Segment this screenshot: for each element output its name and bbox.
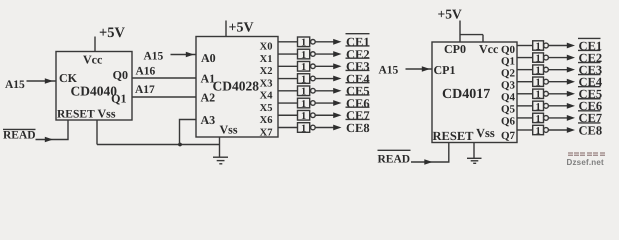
svg-text:Q0: Q0	[501, 44, 516, 56]
net label CE5 (right bank, active-low)	[578, 87, 602, 101]
arrowhead to CE6	[333, 100, 341, 106]
svg-text:Vss: Vss	[220, 123, 238, 137]
wire inverter G13 output	[549, 93, 567, 95]
svg-text:1: 1	[301, 50, 306, 61]
net label CE6 (active-low)	[346, 95, 370, 110]
svg-text:A0: A0	[201, 51, 216, 65]
wire CD4028 X1 to inverter	[278, 53, 298, 55]
svg-text:Q2: Q2	[501, 67, 516, 79]
net label CE5 (active-low)	[346, 83, 370, 98]
inverter G11 (box "1" with bubble)	[533, 65, 549, 77]
power +5V supply to U2 Vcc	[226, 21, 254, 37]
ground symbol (U3 Vss)	[467, 158, 482, 163]
wire inverter G14 output	[549, 105, 567, 107]
arrowhead to CE3	[333, 63, 341, 69]
svg-text:Q4: Q4	[501, 91, 516, 103]
wire inverter G16 output	[549, 129, 567, 131]
svg-text:X6: X6	[260, 115, 273, 126]
arrowhead on CP1 wire	[422, 66, 430, 72]
net label CE8 (right bank, active-low)	[578, 123, 602, 137]
svg-text:RESET: RESET	[57, 109, 95, 121]
svg-text:1: 1	[535, 66, 540, 77]
net label CE7 (active-low)	[346, 107, 370, 122]
svg-text:1: 1	[301, 62, 306, 73]
svg-text:1: 1	[535, 41, 540, 52]
svg-text:X0: X0	[260, 42, 273, 53]
inverter G4 (box "1" with bubble)	[298, 74, 316, 86]
wire READ to U3 RESET	[411, 143, 449, 163]
svg-text:CE8: CE8	[346, 121, 370, 135]
net label CE1 (active-low)	[346, 34, 370, 49]
wire inverter G6 output	[315, 102, 334, 104]
wire U1 Vss down	[96, 120, 98, 145]
arrowhead to CE4	[333, 76, 341, 82]
arrowhead to CE1 right bank	[567, 43, 575, 49]
wire A15 to A0	[171, 54, 197, 56]
wire inverter G10 output	[549, 57, 567, 59]
inverter G7 (box "1" with bubble)	[298, 110, 316, 122]
svg-text:Q0: Q0	[113, 68, 128, 82]
net label CE2 (right bank, active-low)	[578, 50, 602, 64]
wire CD4017 Q3 to inverter	[517, 81, 533, 83]
svg-text:Q7: Q7	[501, 130, 516, 142]
arrowhead to CE6 right bank	[567, 103, 575, 109]
wire CD4017 Q4 to inverter	[517, 93, 533, 95]
inverter G10 (box "1" with bubble)	[533, 53, 549, 65]
wire CD4017 Q5 to inverter	[517, 105, 533, 107]
wire CD4017 Q6 to inverter	[517, 117, 533, 119]
net label CE6 (right bank, active-low)	[578, 99, 602, 113]
power +5V supply to U3 (CP0 and Vcc)	[438, 7, 484, 43]
svg-text:X5: X5	[260, 103, 273, 114]
wire inverter G8 output	[315, 127, 334, 129]
wire A3 riser	[180, 120, 197, 145]
svg-text:X4: X4	[260, 91, 274, 102]
arrowhead to CE5 right bank	[567, 91, 575, 97]
net label CE2 (active-low)	[346, 46, 370, 61]
svg-text:X7: X7	[260, 127, 273, 138]
wire inverter G9 output	[549, 45, 567, 47]
wire CD4028 X2 to inverter	[278, 65, 298, 67]
inverter G5 (box "1" with bubble)	[298, 86, 316, 98]
svg-text:A15: A15	[144, 51, 164, 63]
IC U1 CD4040 counter box	[56, 52, 132, 121]
svg-text:1: 1	[301, 87, 306, 98]
wire inverter G11 output	[549, 69, 567, 71]
wire CD4028 X3 to inverter	[278, 78, 298, 80]
svg-text:A17: A17	[135, 84, 155, 96]
wire A15 to CK	[27, 80, 57, 82]
arrowhead to CE7 right bank	[567, 115, 575, 121]
wire Q1 to A2 (net A17)	[132, 96, 196, 98]
net label READ (active-low, right)	[378, 150, 411, 165]
power +5V supply to U1 Vcc	[95, 25, 126, 52]
ground symbol (U2 Vss)	[213, 157, 228, 164]
IC U2 CD4028 decoder box	[196, 37, 278, 138]
svg-text:Q6: Q6	[501, 116, 516, 128]
inverter G8 (box "1" with bubble)	[298, 123, 316, 135]
svg-text:1: 1	[301, 123, 306, 134]
net label CE3 (right bank, active-low)	[578, 63, 602, 77]
svg-text:X2: X2	[260, 66, 273, 77]
svg-text:Q1: Q1	[501, 55, 515, 67]
arrowhead on right READ wire	[424, 159, 432, 165]
arrowhead to CE5	[333, 88, 341, 94]
inverter G14 (box "1" with bubble)	[533, 101, 549, 113]
svg-text:1: 1	[535, 102, 540, 113]
net label CE1 (right bank, active-low)	[578, 38, 602, 52]
net label READ (active-low)	[3, 129, 36, 141]
arrowhead to CE1	[333, 39, 341, 45]
svg-text:+5V: +5V	[99, 25, 126, 41]
svg-text:CP1: CP1	[434, 63, 456, 77]
arrowhead to CE7	[333, 112, 341, 118]
wire inverter G4 output	[315, 78, 334, 80]
wire U3 Vss down to ground	[473, 143, 475, 159]
svg-text:1: 1	[535, 90, 540, 101]
wire CD4017 Q7 to inverter	[517, 129, 533, 131]
arrowhead to CE8 right bank	[567, 127, 575, 133]
net label CE4 (active-low)	[346, 70, 371, 85]
svg-text:1: 1	[535, 114, 540, 125]
svg-text:READ: READ	[378, 154, 411, 166]
arrowhead to CE4 right bank	[567, 79, 575, 85]
wire inverter G12 output	[549, 81, 567, 83]
svg-text:Vss: Vss	[476, 126, 495, 140]
svg-text:1: 1	[301, 38, 306, 49]
IC U3 CD4017 counter box	[432, 42, 517, 143]
svg-text:1: 1	[535, 78, 540, 89]
wire inverter G3 output	[315, 65, 334, 67]
svg-text:Vcc: Vcc	[83, 53, 103, 67]
svg-text:READ: READ	[3, 130, 36, 142]
inverter G6 (box "1" with bubble)	[298, 98, 316, 110]
svg-text:Q3: Q3	[501, 79, 516, 91]
wire inverter G7 output	[315, 114, 334, 116]
svg-text:1: 1	[301, 99, 306, 110]
svg-text:A16: A16	[136, 66, 156, 78]
wire inverter G2 output	[315, 53, 334, 55]
inverter G15 (box "1" with bubble)	[533, 113, 549, 125]
arrowhead on A0 wire	[186, 52, 194, 58]
wire U2 Vss down to ground	[219, 137, 221, 157]
inverter G2 (box "1" with bubble)	[298, 49, 316, 61]
wire CD4028 X5 to inverter	[278, 102, 298, 104]
net label CE3 (active-low)	[346, 58, 370, 73]
svg-text:X1: X1	[260, 54, 273, 65]
arrowhead to CE2 right bank	[567, 55, 575, 61]
wire CD4028 X4 to inverter	[278, 90, 298, 92]
svg-text:X3: X3	[260, 78, 273, 89]
arrowhead on CK wire	[45, 78, 53, 84]
svg-text:CP0: CP0	[444, 42, 466, 56]
wire CD4028 X0 to inverter	[278, 41, 298, 43]
inverter G1 (box "1" with bubble)	[298, 37, 316, 49]
net label CE4 (right bank, active-low)	[578, 75, 603, 89]
svg-text:CD4028: CD4028	[213, 79, 260, 94]
inverter G3 (box "1" with bubble)	[298, 61, 316, 73]
wire READ to RESET corner	[36, 120, 69, 140]
wire inverter G1 output	[315, 41, 334, 43]
wire CD4017 Q2 to inverter	[517, 69, 533, 71]
wire inverter G5 output	[315, 90, 334, 92]
svg-text:A15: A15	[5, 79, 25, 91]
svg-text:Vss: Vss	[98, 107, 116, 121]
inverter G9 (box "1" with bubble)	[533, 41, 549, 53]
svg-text:+5V: +5V	[438, 7, 462, 22]
svg-text:1: 1	[535, 53, 540, 64]
arrowhead to CE8	[333, 125, 341, 131]
wire ground rail y144.5	[97, 144, 220, 146]
svg-text:A3: A3	[201, 113, 216, 127]
wire CD4028 X6 to inverter	[278, 114, 298, 116]
svg-text:1: 1	[301, 74, 306, 85]
net label CE7 (right bank, active-low)	[578, 111, 602, 125]
svg-text:A15: A15	[379, 65, 399, 77]
wire Q0 to A1 (net A16)	[132, 77, 196, 79]
svg-text:CD4017: CD4017	[442, 87, 490, 102]
svg-text:CE8: CE8	[579, 123, 603, 137]
inverter G16 (box "1" with bubble)	[533, 125, 549, 137]
svg-text:1: 1	[301, 111, 306, 122]
inverter G12 (box "1" with bubble)	[533, 77, 549, 89]
svg-text:1: 1	[535, 126, 540, 137]
svg-text:A2: A2	[201, 91, 216, 105]
arrowhead to CE3 right bank	[567, 67, 575, 73]
wire CD4017 Q0 to inverter	[517, 45, 533, 47]
svg-text:Q5: Q5	[501, 104, 516, 116]
net label CE8 (active-low)	[346, 119, 370, 134]
wire inverter G15 output	[549, 117, 567, 119]
svg-text:Q1: Q1	[111, 92, 126, 106]
svg-text:RESET: RESET	[433, 129, 475, 143]
svg-text:Vcc: Vcc	[479, 42, 499, 56]
wire CD4028 X7 to inverter	[278, 127, 298, 129]
arrowhead to CE2	[333, 51, 341, 57]
wire A15 to CP1	[406, 68, 433, 70]
svg-text:+5V: +5V	[229, 21, 254, 36]
arrowhead on READ wire	[45, 137, 53, 143]
junction A3/ground rail	[178, 143, 182, 147]
wire CD4017 Q1 to inverter	[517, 57, 533, 59]
inverter G13 (box "1" with bubble)	[533, 89, 549, 101]
